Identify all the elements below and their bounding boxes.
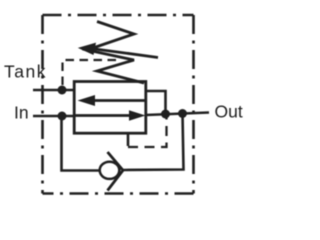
enclosure boundary left edge (dash-dot)	[41, 15, 44, 194]
flow arrow (relief path, points left)	[93, 99, 146, 102]
enclosure boundary bottom edge (dash-dot)	[43, 192, 194, 195]
junction dot Tank	[58, 86, 67, 95]
pilot sense stub from valve bottom	[127, 133, 130, 147]
check valve CV1 seat	[108, 152, 124, 191]
flow arrow (main path, points right)	[74, 114, 131, 117]
enclosure boundary top edge (dash-dot)	[43, 14, 194, 17]
wire Out to check valve	[124, 114, 184, 171]
pilot drain dashed line to Tank	[63, 60, 117, 85]
junction dot Out check	[178, 109, 187, 118]
wire step link valve to Out	[146, 91, 166, 114]
valve envelope U1	[74, 82, 146, 134]
svg-text:In: In	[14, 103, 29, 123]
adjustment arrow head	[78, 43, 96, 55]
pilot sense dashed line to Out	[128, 114, 167, 148]
enclosure boundary right edge (dash-dot)	[192, 15, 195, 194]
wire Tank line	[33, 89, 74, 92]
flow arrow head (main, right)	[129, 110, 146, 121]
flow arrow head (relief, left)	[78, 95, 96, 106]
wire Out line	[146, 113, 209, 116]
junction dot In	[58, 112, 67, 121]
check valve CV1 circle	[100, 162, 120, 179]
adjustment arrow shaft	[93, 49, 158, 58]
wire In line	[33, 115, 74, 118]
svg-text:Out: Out	[215, 102, 243, 122]
svg-text:Tank: Tank	[4, 62, 47, 82]
wire In to check valve	[62, 116, 101, 171]
spring (zigzag)	[87, 22, 144, 84]
junction dot Out pilot	[161, 110, 170, 119]
